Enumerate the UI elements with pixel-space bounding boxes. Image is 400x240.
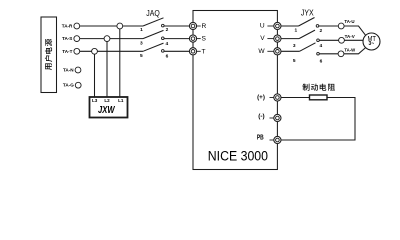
svg-text:TA-V: TA-V (345, 34, 355, 39)
breaker JAQ pole 5-6 (140, 43, 190, 59)
svg-text:6: 6 (166, 53, 169, 59)
wire T phase (80, 50, 143, 52)
svg-text:5: 5 (293, 58, 296, 64)
wire R phase (80, 25, 143, 27)
svg-text:(+): (+) (257, 94, 265, 101)
svg-text:TA-S: TA-S (62, 36, 72, 41)
contactor JYX pole 1-2 (281, 18, 339, 34)
svg-text:JYX: JYX (301, 7, 314, 17)
node junction R (117, 23, 123, 29)
svg-text:W: W (258, 48, 265, 55)
terminal (-) (258, 113, 281, 122)
svg-text:TA-N: TA-N (63, 68, 74, 73)
wire drop to JXW L1 (119, 26, 121, 98)
wire resistor to PB loop (281, 98, 355, 141)
wire U to motor (344, 26, 366, 35)
resistor 制动电阻 (310, 95, 328, 100)
breaker JAQ pole 1-2 (140, 18, 189, 33)
breaker JAQ pole 3-4 (140, 30, 190, 47)
wire drop to JXW L2 (106, 39, 108, 98)
node junction S (104, 36, 110, 42)
svg-text:(-): (-) (258, 113, 264, 120)
svg-text:2: 2 (166, 27, 169, 33)
terminal TA-G (63, 82, 81, 88)
svg-text:TA-W: TA-W (344, 48, 356, 53)
svg-text:3: 3 (293, 43, 296, 49)
motor MT (363, 33, 380, 50)
terminal (+) (257, 94, 281, 101)
relay box JXW (90, 97, 128, 118)
terminal TA-V (339, 34, 355, 43)
svg-text:PB: PB (257, 134, 264, 141)
svg-text:NICE 3000: NICE 3000 (208, 149, 268, 165)
terminal T (189, 48, 205, 56)
svg-text:1: 1 (294, 28, 297, 34)
svg-text:6: 6 (320, 58, 323, 64)
svg-text:4: 4 (319, 43, 322, 49)
wire (+) to resistor (281, 97, 310, 99)
wire drop to JXW L3 (94, 51, 96, 97)
terminal TA-W (338, 48, 356, 57)
svg-text:TA-G: TA-G (63, 83, 74, 88)
terminal S (189, 35, 206, 43)
terminal PB (257, 134, 281, 143)
svg-text:TA-U: TA-U (344, 19, 354, 24)
terminal TA-U (338, 19, 354, 29)
svg-text:3~: 3~ (368, 41, 374, 47)
svg-text:TA-R: TA-R (62, 24, 73, 29)
svg-text:1: 1 (140, 27, 143, 33)
svg-text:4: 4 (165, 41, 168, 47)
contactor JYX pole 3-4 (281, 30, 339, 49)
svg-text:3: 3 (140, 41, 143, 47)
wire S phase (80, 38, 143, 40)
terminal R (189, 22, 206, 30)
wire V to motor (344, 39, 363, 41)
terminal V (260, 35, 281, 42)
svg-text:T: T (202, 48, 206, 55)
wire W to motor (344, 48, 366, 54)
terminal TA-S (62, 36, 80, 42)
braking resistor label 制动电阻 (302, 84, 334, 91)
svg-text:2: 2 (319, 28, 322, 34)
svg-text:JXW: JXW (98, 105, 116, 116)
svg-text:L3: L3 (92, 98, 98, 103)
terminal W (258, 48, 281, 55)
terminal TA-T (62, 48, 79, 54)
svg-text:JAQ: JAQ (146, 8, 160, 18)
svg-text:U: U (260, 23, 265, 30)
controller box NICE 3000 (193, 11, 277, 170)
contactor JYX pole 5-6 (281, 43, 338, 65)
svg-text:5: 5 (140, 53, 143, 59)
terminal TA-R (62, 23, 80, 29)
svg-text:TA-T: TA-T (62, 49, 72, 54)
svg-text:R: R (202, 23, 207, 30)
terminal U (260, 22, 281, 29)
terminal TA-N (63, 67, 81, 73)
user power supply box 用户电源 (41, 17, 57, 93)
svg-text:S: S (202, 36, 207, 43)
svg-text:L2: L2 (104, 98, 110, 103)
svg-text:L1: L1 (118, 98, 124, 103)
svg-text:V: V (260, 35, 265, 42)
node junction T (92, 48, 98, 54)
